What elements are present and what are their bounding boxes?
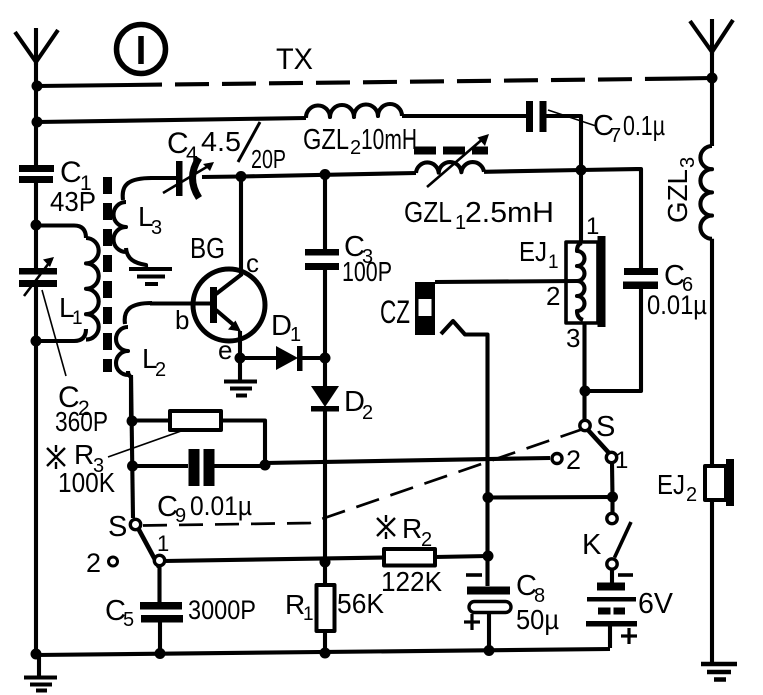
wire emitter to D1	[240, 356, 276, 360]
svg-text:R: R	[74, 439, 94, 470]
wire C8 bottom to rail	[487, 613, 491, 652]
capacitor C2 360P (variable)	[19, 257, 57, 296]
diode D1	[276, 346, 303, 371]
polarity plus (battery)	[621, 628, 637, 644]
ground (below L3)	[129, 269, 172, 284]
label L2	[142, 343, 166, 381]
label C4 4.5/20P	[167, 126, 286, 174]
svg-text:0.1µ: 0.1µ	[623, 110, 665, 141]
diode D2	[311, 386, 339, 412]
svg-text:1: 1	[548, 252, 559, 273]
svg-text:2: 2	[686, 484, 697, 506]
wire K to battery	[610, 569, 614, 583]
wire node A to EJ1 pin 1	[579, 170, 583, 242]
junction dot collector node	[236, 171, 247, 182]
capacitor C8 50u (electrolytic)	[467, 587, 511, 613]
wire left line C1 to C2	[34, 183, 38, 268]
wire D1 to C3 line	[302, 356, 325, 360]
wire right antenna down to GZL3	[710, 52, 714, 146]
wire C4 left to L3	[150, 176, 176, 180]
junction dot pin3 / C6 return	[580, 386, 591, 397]
label C6 0.01u	[647, 260, 707, 320]
label C7 0.1u with callout	[593, 110, 665, 147]
svg-text:0.01µ: 0.01µ	[647, 290, 707, 320]
wire C4 right to collector node	[202, 174, 241, 179]
switch S (right, pivot and arm)	[580, 420, 617, 462]
svg-text:BG: BG	[190, 233, 225, 265]
svg-text:3: 3	[677, 157, 699, 168]
transformer EJ1 (driver) box and core	[566, 236, 606, 327]
svg-text:1: 1	[615, 447, 628, 474]
capacitor C6 0.01u	[623, 268, 658, 289]
svg-text:2: 2	[86, 548, 101, 578]
inductor L3 (feedback winding)	[114, 178, 153, 269]
junction dot right antenna / TX	[707, 73, 718, 84]
capacitor C7 plates	[526, 101, 547, 132]
svg-text:100K: 100K	[58, 467, 115, 498]
wire C5 to bottom rail	[158, 622, 162, 654]
svg-text:R: R	[402, 513, 422, 544]
junction dot R1 top / switch wire	[320, 557, 331, 568]
antenna ANT1 (left)	[15, 28, 58, 65]
transistor BG (circle)	[193, 269, 265, 341]
label R3 100K with reference mark	[58, 439, 115, 498]
wire base (L2 to base bar)	[150, 301, 210, 305]
label C3 100P	[342, 231, 392, 287]
wire bottom rail	[36, 649, 610, 655]
wire R3 right lead down to C9 node	[221, 421, 265, 466]
resistor R2 122K	[384, 549, 435, 566]
svg-text:2: 2	[350, 137, 361, 159]
switch S (left, pivot and arm)	[130, 519, 164, 567]
wire CZ top to EJ1 pin 2	[435, 281, 578, 282]
wire CZ hook contact down to R2 node	[441, 321, 488, 586]
svg-text:1: 1	[303, 604, 314, 625]
wire C9 right lead	[215, 464, 266, 468]
capacitor C5 3000P	[140, 602, 183, 623]
junction dot hook wire / R2	[483, 551, 494, 562]
svg-text:1: 1	[157, 531, 169, 556]
battery GB 6V	[586, 583, 637, 627]
junction dot C9 left	[127, 461, 138, 472]
inductor EJ1 winding	[577, 243, 585, 320]
svg-text:S: S	[108, 511, 127, 543]
resistor R1 56K	[317, 585, 335, 631]
label R1 56K	[285, 588, 384, 625]
svg-text:100P: 100P	[342, 256, 392, 287]
svg-text:b: b	[175, 305, 189, 335]
polarity minus (C8)	[466, 573, 482, 577]
wire EJ2 down to ground	[710, 500, 714, 664]
junction dot L1 bottom tap	[31, 336, 42, 347]
svg-text:56K: 56K	[337, 588, 384, 619]
svg-text:4: 4	[186, 143, 198, 166]
wire C6 bottom to pin3 node	[585, 289, 641, 391]
svg-text:D: D	[271, 310, 292, 342]
svg-text:3: 3	[151, 217, 162, 239]
antenna ANT2 (right)	[690, 19, 733, 55]
wire emitter down to ground	[238, 331, 242, 380]
svg-text:6V: 6V	[638, 588, 674, 620]
junction dot emitter/D1	[235, 353, 246, 364]
label GZL1 2.5mH	[404, 197, 554, 234]
contact 2 (left switch, open circle)	[109, 557, 118, 566]
jack CZ (microphone jack)	[415, 282, 435, 335]
svg-text:20P: 20P	[251, 144, 286, 174]
wire K node down to switch K	[610, 497, 614, 513]
svg-text:1: 1	[290, 324, 301, 346]
svg-text:EJ: EJ	[657, 469, 685, 500]
svg-text:10mH: 10mH	[361, 124, 417, 156]
svg-text:2: 2	[362, 402, 373, 424]
junction dot C3 top node	[320, 169, 331, 180]
resistor R3 100K	[170, 411, 221, 430]
svg-text:EJ: EJ	[519, 236, 547, 267]
wire R1 bottom to rail	[323, 631, 327, 654]
svg-text:K: K	[582, 529, 602, 561]
junction dot left line / RX wire	[32, 117, 43, 128]
svg-text:S: S	[596, 411, 615, 443]
svg-text:2: 2	[155, 359, 166, 381]
wire D2 down to R1 (crosses receive wire)	[323, 411, 327, 585]
svg-text:c: c	[246, 248, 259, 278]
svg-text:1: 1	[586, 213, 599, 240]
junction dot C5 / bottom rail	[155, 648, 166, 659]
wire left antenna vertical (top)	[34, 62, 38, 165]
wire R2 right lead	[435, 556, 488, 557]
svg-text:GZL: GZL	[404, 197, 452, 229]
svg-text:GZL: GZL	[303, 124, 349, 156]
gang link dashed line (S to S)	[143, 429, 583, 526]
wire L2 bottom to switch S pivot	[131, 375, 133, 518]
label R2 122K with reference mark	[381, 513, 442, 597]
label D2	[344, 386, 373, 424]
svg-text:3000P: 3000P	[188, 595, 256, 625]
label L1	[59, 292, 83, 329]
label D1	[271, 310, 301, 346]
svg-text:e: e	[218, 335, 232, 365]
svg-text:GZL: GZL	[662, 169, 693, 223]
junction dot L1 top tap	[31, 220, 42, 231]
contact 2 (right switch, open circle)	[552, 454, 562, 464]
transistor BG base bar	[210, 287, 217, 323]
reference mark (asterisk) for R3	[47, 445, 65, 469]
junction dot C8 / bottom rail	[484, 645, 495, 656]
polarity plus (C8)	[464, 614, 480, 630]
svg-text:CZ: CZ	[380, 294, 410, 330]
label C1 43P	[50, 156, 96, 217]
wire GZL3 down to EJ2	[710, 239, 714, 466]
wire contact1 to R1 and R2	[164, 558, 384, 562]
junction dot left antenna / TX	[32, 81, 43, 92]
ground (right, below EJ2)	[701, 664, 737, 680]
junction dot R3 left	[127, 416, 138, 427]
junction dot R1 / bottom rail	[320, 648, 331, 659]
wire node to C3	[323, 174, 327, 250]
transistor BG collector stroke	[216, 274, 242, 294]
label GZL3 (rotated)	[662, 157, 699, 223]
svg-text:122K: 122K	[381, 566, 442, 597]
earphone EJ2	[705, 459, 734, 506]
callout line R3	[108, 430, 184, 457]
wire main node line (collector node to GZL1)	[241, 173, 416, 177]
label L3	[138, 201, 162, 239]
label GZL2 10mH	[303, 124, 417, 159]
wire C9 left lead	[133, 464, 189, 468]
svg-text:43P: 43P	[50, 186, 96, 217]
svg-text:C: C	[60, 156, 82, 189]
label C9 0.01u	[157, 491, 252, 527]
ground (emitter)	[224, 382, 257, 396]
transformer core (dashed)	[103, 177, 112, 372]
junction dot node A	[576, 165, 587, 176]
label C2 360P with callout line	[55, 381, 108, 437]
capacitor C1 43P	[19, 165, 54, 183]
wire K node to hook node	[488, 495, 613, 500]
wire GZL2 to C7	[402, 114, 527, 118]
reference mark (asterisk) for R2	[377, 515, 395, 539]
wire EJ1 pin 3 down to switch S pivot	[582, 323, 586, 420]
svg-text:1: 1	[72, 308, 83, 329]
svg-text:360P: 360P	[55, 406, 108, 437]
label circle 1 (station marker)	[117, 25, 166, 74]
label C5 3000P	[105, 595, 256, 631]
wire C3 to D2	[323, 270, 327, 386]
inductor GZL2 10mH	[306, 104, 402, 118]
wire left line C2 down to bottom rail	[34, 287, 38, 654]
wire node A to C6	[581, 169, 641, 268]
capacitor C3 100P	[305, 249, 339, 270]
junction dot C9 right	[260, 460, 271, 471]
label C8 50u	[516, 570, 559, 635]
svg-text:2: 2	[566, 445, 581, 475]
wire TX dashed line (antenna to antenna)	[37, 85, 128, 86]
wire battery bottom to rail	[608, 626, 612, 648]
svg-text:0.01µ: 0.01µ	[190, 491, 252, 521]
inductor L2 (base winding)	[116, 303, 152, 420]
wire contact1 down to C5	[157, 566, 161, 602]
svg-text:2: 2	[421, 529, 432, 551]
switch K (push-to-talk)	[607, 513, 631, 569]
wire R3 left lead	[132, 418, 170, 422]
svg-text:TX: TX	[276, 43, 313, 76]
svg-text:2.5mH: 2.5mH	[465, 197, 554, 229]
svg-text:5: 5	[123, 609, 134, 631]
inductor GZL1 2.5mH (variable, with core)	[414, 134, 489, 187]
capacitor C4 4.5/20P (variable trimmer)	[163, 158, 214, 198]
junction dot bottom-left corner	[31, 649, 42, 660]
wire C7 to right corner down to node A	[547, 116, 582, 170]
svg-text:4.5: 4.5	[201, 126, 241, 157]
wire contact1 down to K node	[610, 463, 615, 497]
junction dot D1 / C3 line	[320, 353, 331, 364]
transistor BG emitter stroke with arrow	[216, 310, 241, 332]
label EJ2	[657, 469, 697, 506]
wire GZL1 to node A	[484, 170, 581, 172]
svg-text:2: 2	[546, 281, 560, 311]
svg-text:3: 3	[566, 323, 580, 353]
inductor L1 (primary winding)	[36, 226, 99, 342]
wire C9 node to switch contact 2 (right)	[265, 458, 550, 463]
wire RX line to GZL2	[37, 118, 306, 122]
svg-text:7: 7	[610, 125, 621, 147]
junction dot K node	[607, 492, 618, 503]
svg-text:50µ: 50µ	[516, 604, 559, 635]
capacitor C9 0.01u	[189, 449, 215, 486]
label EJ1	[519, 236, 559, 273]
inductor GZL3	[700, 146, 712, 239]
ground (bottom left)	[24, 654, 57, 691]
polarity minus (battery)	[618, 573, 633, 577]
wire collector up to node	[239, 176, 243, 276]
junction dot hook wire / switch feed	[483, 492, 494, 503]
